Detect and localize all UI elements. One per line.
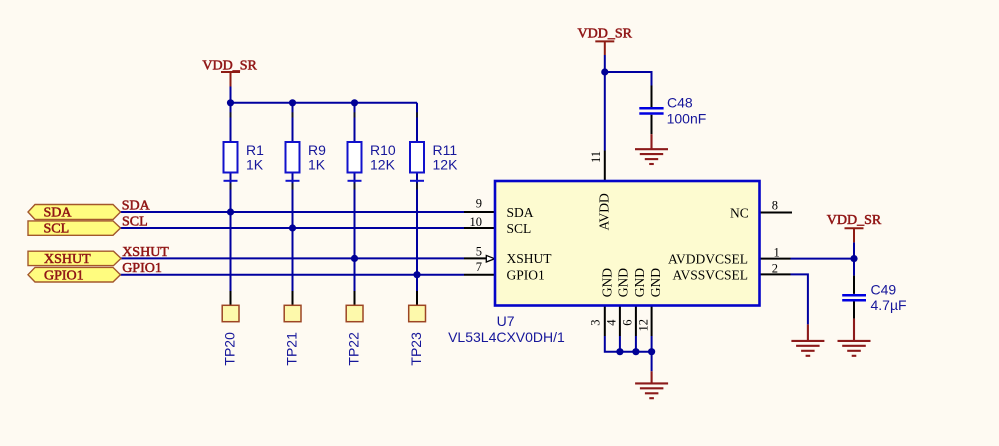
svg-text:AVSSVCSEL: AVSSVCSEL bbox=[672, 267, 748, 282]
svg-text:SDA: SDA bbox=[507, 205, 534, 220]
svg-text:AVDD: AVDD bbox=[597, 193, 612, 231]
svg-text:GND: GND bbox=[648, 268, 663, 297]
svg-text:8: 8 bbox=[772, 199, 778, 213]
svg-text:R10: R10 bbox=[370, 142, 396, 158]
svg-text:C49: C49 bbox=[871, 282, 897, 298]
svg-text:4.7µF: 4.7µF bbox=[871, 297, 907, 313]
svg-text:VL53L4CXV0DH/1: VL53L4CXV0DH/1 bbox=[448, 329, 565, 345]
svg-text:VDD_SR: VDD_SR bbox=[578, 26, 633, 41]
svg-text:GND: GND bbox=[632, 268, 647, 297]
svg-text:XSHUT: XSHUT bbox=[44, 252, 91, 267]
svg-text:XSHUT: XSHUT bbox=[122, 245, 169, 260]
svg-text:4: 4 bbox=[604, 319, 618, 326]
svg-text:U7: U7 bbox=[497, 313, 515, 329]
svg-text:GPIO1: GPIO1 bbox=[44, 268, 84, 283]
svg-text:R1: R1 bbox=[246, 142, 264, 158]
svg-text:12K: 12K bbox=[433, 157, 459, 173]
svg-text:VDD_SR: VDD_SR bbox=[202, 58, 257, 73]
svg-text:11: 11 bbox=[589, 151, 603, 163]
svg-text:GPIO1: GPIO1 bbox=[507, 268, 545, 283]
svg-text:1K: 1K bbox=[246, 157, 264, 173]
svg-text:SDA: SDA bbox=[122, 198, 151, 213]
svg-text:SCL: SCL bbox=[507, 221, 532, 236]
svg-text:R11: R11 bbox=[433, 142, 458, 158]
svg-text:TP21: TP21 bbox=[284, 332, 300, 366]
svg-text:TP22: TP22 bbox=[346, 332, 362, 366]
svg-text:1K: 1K bbox=[308, 157, 326, 173]
svg-text:NC: NC bbox=[730, 205, 749, 220]
svg-text:10: 10 bbox=[470, 215, 483, 229]
svg-text:5: 5 bbox=[476, 245, 482, 259]
svg-text:GPIO1: GPIO1 bbox=[122, 261, 162, 276]
svg-text:TP20: TP20 bbox=[222, 332, 238, 366]
svg-text:GND: GND bbox=[616, 268, 631, 297]
svg-text:TP23: TP23 bbox=[408, 332, 424, 366]
svg-text:C48: C48 bbox=[667, 95, 693, 111]
svg-text:3: 3 bbox=[589, 319, 603, 325]
svg-text:2: 2 bbox=[772, 261, 778, 275]
svg-text:VDD_SR: VDD_SR bbox=[827, 213, 882, 228]
svg-text:9: 9 bbox=[476, 197, 482, 211]
svg-text:12: 12 bbox=[636, 319, 650, 332]
svg-text:XSHUT: XSHUT bbox=[507, 251, 553, 266]
svg-text:SDA: SDA bbox=[44, 206, 73, 221]
svg-text:SCL: SCL bbox=[44, 222, 70, 237]
svg-text:AVDDVCSEL: AVDDVCSEL bbox=[668, 252, 748, 267]
svg-text:12K: 12K bbox=[370, 157, 396, 173]
svg-text:SCL: SCL bbox=[122, 214, 148, 229]
svg-text:GND: GND bbox=[599, 268, 614, 297]
svg-text:6: 6 bbox=[620, 319, 634, 325]
svg-text:7: 7 bbox=[476, 260, 482, 274]
svg-text:1: 1 bbox=[774, 245, 780, 259]
svg-text:R9: R9 bbox=[308, 142, 326, 158]
svg-text:100nF: 100nF bbox=[667, 110, 707, 126]
